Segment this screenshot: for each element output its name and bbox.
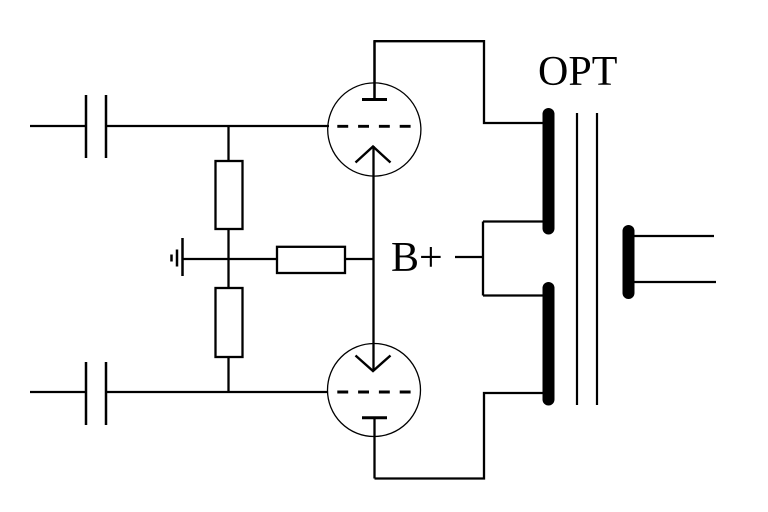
tube V2 cathode	[356, 356, 391, 372]
wire input bottom-left	[30, 391, 86, 393]
wire node A down to R1	[227, 126, 229, 162]
tube V2 plate	[362, 416, 387, 419]
wire V2 plate bottom run	[375, 393, 545, 479]
wire C1 to V1 grid	[106, 125, 329, 127]
tube V1 envelope	[328, 83, 421, 176]
ground	[172, 238, 183, 276]
wire B+ feed	[455, 256, 483, 258]
transformer T1 core line 1	[576, 113, 578, 405]
tube V1 grid (dashed)	[337, 125, 410, 128]
transformer T1 secondary winding	[623, 231, 635, 293]
transformer T1 core line 2	[596, 113, 598, 405]
wire cathode bus V1 to V2	[372, 146, 374, 371]
resistor R1	[216, 161, 243, 229]
wire R1 to R2 through node B	[227, 229, 229, 288]
wire R2 to node C	[227, 357, 229, 393]
tube V2 grid (dashed)	[337, 391, 410, 394]
tube V1 plate lead	[373, 41, 375, 99]
wire secondary output upper	[634, 235, 714, 237]
wire center-tap lower	[483, 294, 546, 296]
resistor R3	[277, 247, 345, 273]
wire C2 to V2 grid	[106, 391, 328, 393]
capacitor C1	[86, 95, 106, 158]
wire center-tap upper	[483, 220, 546, 222]
tube V1 cathode	[356, 147, 391, 163]
svg-text:OPT: OPT	[538, 49, 617, 95]
svg-text:B+: B+	[391, 235, 443, 281]
wire ground to R3	[183, 258, 277, 260]
wire center-tap vertical	[482, 222, 484, 296]
resistor R2	[216, 288, 243, 357]
transformer T1 primary upper winding	[543, 114, 555, 229]
tube V1 plate	[362, 98, 387, 101]
wire secondary output lower	[634, 281, 716, 283]
wire V1 plate top run	[375, 41, 545, 123]
tube V2 plate lead	[373, 418, 375, 479]
wire input top-left	[30, 125, 86, 127]
capacitor C2	[86, 362, 106, 425]
wire R3 to cathode line	[345, 258, 374, 260]
transformer T1 primary lower winding	[543, 288, 555, 400]
tube V2 envelope	[328, 344, 421, 437]
